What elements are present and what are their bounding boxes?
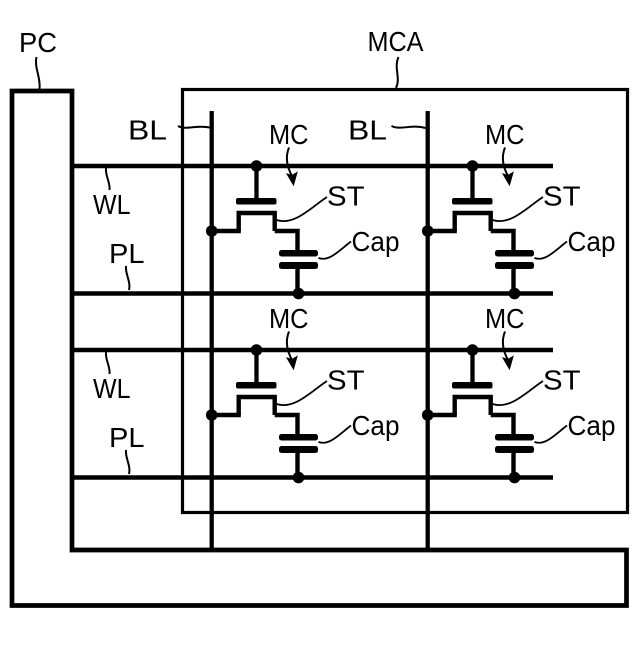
svg-text:MC: MC xyxy=(269,303,309,334)
transistor ST3 gate bar xyxy=(236,382,277,389)
wire plate line PL2 xyxy=(72,475,553,479)
svg-text:MCA: MCA xyxy=(368,26,424,57)
svg-text:Cap: Cap xyxy=(568,226,616,257)
capacitor Cap2 bottom plate xyxy=(495,262,534,269)
wire capacitor to PL cell 4 xyxy=(511,452,515,478)
transistor ST1 channel and source/drain legs xyxy=(239,213,275,231)
node gate junction dot cell 1 on WL xyxy=(251,160,263,172)
node gate junction dot cell 2 on WL xyxy=(467,160,479,172)
leader line for PL1 xyxy=(126,266,130,290)
node source junction dot cell 2 on BL xyxy=(422,225,434,237)
svg-text:WL: WL xyxy=(93,189,131,220)
wire source to BL cell 3 xyxy=(210,413,241,417)
svg-text:ST: ST xyxy=(327,181,365,212)
wire source to BL cell 4 xyxy=(426,413,457,417)
leader line for WL2 xyxy=(106,352,110,374)
leader line for ST cell 1 xyxy=(277,197,328,221)
arrowhead for MC cell 3 xyxy=(287,357,297,370)
wire capacitor to PL cell 2 xyxy=(511,268,515,294)
leader line for Cap cell 2 xyxy=(535,242,568,259)
wire capacitor to PL cell 3 xyxy=(295,452,299,478)
transistor ST1 gate bar xyxy=(236,198,277,205)
wire gate stem cell 1 xyxy=(254,166,258,202)
leader line for ST cell 2 xyxy=(493,197,544,221)
wire gate stem cell 4 xyxy=(470,350,474,386)
arrowhead for MC cell 4 xyxy=(503,357,513,370)
leader line for right BL xyxy=(392,126,426,128)
node capacitor junction dot cell 1 on PL xyxy=(293,288,305,300)
node capacitor junction dot cell 4 on PL xyxy=(509,472,521,484)
svg-text:ST: ST xyxy=(543,365,581,396)
svg-text:PL: PL xyxy=(109,238,145,269)
leader line for MCA xyxy=(396,57,399,88)
arrow leader for MC cell 2 xyxy=(503,148,508,177)
node source junction dot cell 3 on BL xyxy=(206,409,218,421)
arrow leader for MC cell 3 xyxy=(287,332,292,361)
svg-text:Cap: Cap xyxy=(352,226,400,257)
svg-text:PL: PL xyxy=(109,422,145,453)
wire word line WL2 xyxy=(72,348,553,352)
peripheral circuit block PC outline xyxy=(12,91,627,606)
wire source to BL cell 2 xyxy=(426,229,457,233)
svg-text:ST: ST xyxy=(543,181,581,212)
wire bit line BL2 xyxy=(426,111,430,550)
leader line for Cap cell 3 xyxy=(319,426,352,443)
leader line for PC xyxy=(36,57,40,89)
transistor ST3 channel and source/drain legs xyxy=(239,397,275,415)
memory cell array MCA outline xyxy=(183,90,628,513)
capacitor Cap1 top plate xyxy=(279,250,318,257)
leader line for ST cell 3 xyxy=(277,381,328,405)
transistor ST2 gate bar xyxy=(452,198,493,205)
svg-text:PC: PC xyxy=(19,27,57,58)
node capacitor junction dot cell 3 on PL xyxy=(293,472,305,484)
wire source to BL cell 1 xyxy=(210,229,241,233)
svg-text:ST: ST xyxy=(327,365,365,396)
capacitor Cap3 top plate xyxy=(279,434,318,441)
node source junction dot cell 4 on BL xyxy=(422,409,434,421)
wire drain to capacitor cell 3 xyxy=(275,415,298,436)
node capacitor junction dot cell 2 on PL xyxy=(509,288,521,300)
svg-text:MC: MC xyxy=(269,119,309,150)
svg-text:BL: BL xyxy=(348,115,387,146)
wire gate stem cell 3 xyxy=(254,350,258,386)
svg-text:WL: WL xyxy=(93,373,131,404)
leader line for Cap cell 1 xyxy=(319,242,352,259)
capacitor Cap1 bottom plate xyxy=(279,262,318,269)
svg-text:Cap: Cap xyxy=(352,410,400,441)
arrow leader for MC cell 4 xyxy=(503,332,508,361)
leader line for left BL xyxy=(178,126,210,128)
transistor ST4 channel and source/drain legs xyxy=(455,397,491,415)
node gate junction dot cell 4 on WL xyxy=(467,344,479,356)
node gate junction dot cell 3 on WL xyxy=(251,344,263,356)
leader line for ST cell 4 xyxy=(493,381,544,405)
arrowhead for MC cell 1 xyxy=(287,173,297,186)
wire bit line BL1 xyxy=(210,111,214,550)
wire drain to capacitor cell 4 xyxy=(491,415,514,436)
transistor ST4 gate bar xyxy=(452,382,493,389)
capacitor Cap3 bottom plate xyxy=(279,446,318,453)
transistor ST2 channel and source/drain legs xyxy=(455,213,491,231)
wire plate line PL1 xyxy=(72,291,553,295)
svg-text:MC: MC xyxy=(485,119,525,150)
capacitor Cap4 top plate xyxy=(495,434,534,441)
svg-text:MC: MC xyxy=(485,303,525,334)
wire gate stem cell 2 xyxy=(470,166,474,202)
wire capacitor to PL cell 1 xyxy=(295,268,299,294)
wire drain to capacitor cell 2 xyxy=(491,231,514,252)
node source junction dot cell 1 on BL xyxy=(206,225,218,237)
leader line for Cap cell 4 xyxy=(535,426,568,443)
wire drain to capacitor cell 1 xyxy=(275,231,298,252)
svg-text:Cap: Cap xyxy=(568,410,616,441)
capacitor Cap4 bottom plate xyxy=(495,446,534,453)
leader line for WL1 xyxy=(106,168,110,190)
wire word line WL1 xyxy=(72,164,553,168)
capacitor Cap2 top plate xyxy=(495,250,534,257)
arrow leader for MC cell 1 xyxy=(287,148,292,177)
arrowhead for MC cell 2 xyxy=(503,173,513,186)
svg-text:BL: BL xyxy=(128,115,167,146)
leader line for PL2 xyxy=(126,450,130,474)
